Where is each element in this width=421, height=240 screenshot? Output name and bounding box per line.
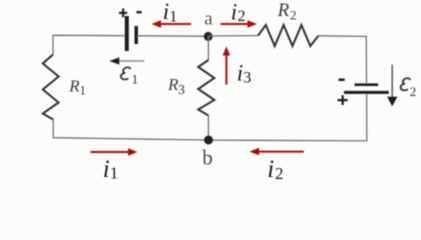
label + (E1) [119,9,127,18]
label - (E2) [339,79,345,82]
svg-text:R: R [277,0,290,21]
label E2 (script emf symbol) [401,78,410,90]
resistor R1 [43,55,59,120]
wire: node a to R2 [208,35,258,37]
battery E2 positive plate (long, bottom) [344,91,389,94]
svg-text:2: 2 [238,8,246,25]
battery E1 positive plate (long) [125,16,129,51]
svg-text:1: 1 [110,164,119,182]
svg-text:i: i [267,156,274,182]
wire: battery E2 to bottom-right corner, to node b [212,94,367,141]
svg-text:2: 2 [410,84,417,99]
svg-text:2: 2 [275,164,284,182]
svg-text:R: R [68,77,80,96]
svg-text:2: 2 [290,7,297,22]
wire: node a down to R3 [207,37,209,61]
wire: R1 down, bottom-left corner, to node b [53,120,205,141]
battery E2 negative plate (short, top) [355,83,379,86]
current arrow i2 (bottom, red, points left) [255,151,304,153]
current arrow i3 (red, points up) [225,52,227,85]
label - (E1) [137,11,142,14]
svg-text:i: i [237,60,243,85]
wire: battery E1 right plate to node a [137,35,205,37]
svg-text:i: i [103,156,110,182]
svg-text:a: a [204,8,213,29]
current arrow i1 (top, red, points left) [157,23,191,25]
node a [204,32,213,41]
label E1 (script emf symbol) [121,67,130,79]
svg-text:1: 1 [80,83,86,97]
wire: R3 down to node b [207,116,209,141]
emf direction arrow of E2 (black, points down) [391,65,393,98]
current arrow i1 (bottom, red, points right) [91,151,133,153]
current arrow i2 (top, red, points right) [221,23,252,25]
battery E1 negative plate (short) [135,26,138,44]
svg-text:3: 3 [178,83,185,98]
svg-text:1: 1 [132,72,139,87]
label + (E2) [338,95,348,105]
emf direction arrow of E1 (black, points left) [117,60,144,62]
node b [204,136,213,145]
resistor R2 [258,25,319,46]
svg-text:b: b [202,145,213,169]
svg-text:1: 1 [169,9,177,26]
resistor R3 [198,60,214,116]
wire: R2 to top-right corner, down to battery E2 [319,36,367,83]
svg-text:i: i [231,0,237,25]
wire: battery E1 left plate to top-left corner and down to R1 [53,35,125,54]
svg-text:i: i [163,0,169,24]
svg-text:3: 3 [243,70,251,87]
